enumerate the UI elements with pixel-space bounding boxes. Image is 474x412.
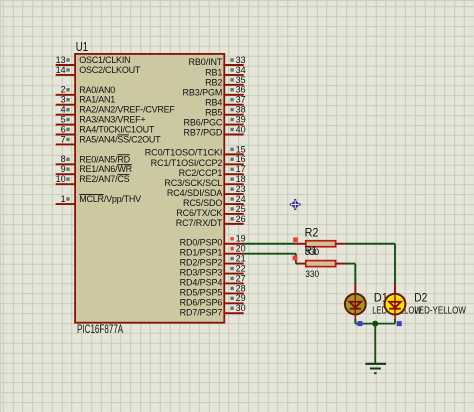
- svg-text:RA2/AN2/VREF-/CVREF: RA2/AN2/VREF-/CVREF: [79, 105, 175, 115]
- svg-text:RC0/T1OSO/T1CKI: RC0/T1OSO/T1CKI: [145, 148, 223, 158]
- svg-text:LED-YELLOW: LED-YELLOW: [414, 306, 466, 317]
- svg-text:MCLR/Vpp/THV: MCLR/Vpp/THV: [79, 194, 141, 204]
- svg-text:RA1/AN1: RA1/AN1: [79, 95, 115, 105]
- svg-text:D2: D2: [414, 290, 427, 304]
- svg-text:21: 21: [236, 254, 246, 264]
- svg-text:330: 330: [305, 269, 319, 280]
- svg-text:RC1/T1OSI/CCP2: RC1/T1OSI/CCP2: [151, 158, 223, 168]
- svg-text:RB4: RB4: [205, 97, 222, 107]
- svg-text:18: 18: [236, 174, 246, 184]
- svg-text:38: 38: [236, 105, 246, 115]
- svg-text:2: 2: [61, 85, 66, 95]
- svg-text:RA5/AN4/SS/C2OUT: RA5/AN4/SS/C2OUT: [79, 134, 161, 144]
- svg-text:PIC16F877A: PIC16F877A: [77, 324, 123, 336]
- svg-text:RA4/T0CKI/C1OUT: RA4/T0CKI/C1OUT: [79, 125, 155, 135]
- svg-text:RA0/AN0: RA0/AN0: [79, 85, 115, 95]
- svg-text:15: 15: [236, 144, 246, 154]
- svg-text:6: 6: [61, 124, 66, 134]
- svg-text:9: 9: [61, 164, 66, 174]
- svg-text:5: 5: [61, 114, 66, 124]
- svg-text:27: 27: [236, 273, 246, 283]
- svg-text:36: 36: [236, 85, 246, 95]
- svg-text:23: 23: [236, 184, 246, 194]
- svg-text:35: 35: [236, 75, 246, 85]
- svg-text:RB6/PGC: RB6/PGC: [183, 118, 222, 128]
- svg-text:RE1/AN6/WR: RE1/AN6/WR: [79, 164, 132, 174]
- svg-text:RC3/SCK/SCL: RC3/SCK/SCL: [164, 178, 222, 188]
- svg-text:RD7/PSP7: RD7/PSP7: [180, 307, 223, 317]
- svg-text:RB5: RB5: [205, 108, 222, 118]
- svg-text:RB0/INT: RB0/INT: [188, 57, 222, 67]
- svg-text:39: 39: [236, 114, 246, 124]
- svg-text:25: 25: [236, 204, 246, 214]
- svg-text:RC6/TX/CK: RC6/TX/CK: [176, 208, 222, 218]
- svg-text:RC4/SDI/SDA: RC4/SDI/SDA: [167, 188, 223, 198]
- svg-text:22: 22: [236, 263, 246, 273]
- svg-text:33: 33: [236, 55, 246, 65]
- svg-text:13: 13: [56, 55, 66, 65]
- svg-text:3: 3: [61, 95, 66, 105]
- svg-text:U1: U1: [76, 40, 88, 54]
- svg-text:RA3/AN3/VREF+: RA3/AN3/VREF+: [79, 115, 145, 125]
- svg-text:RC2/CCP1: RC2/CCP1: [179, 168, 223, 178]
- svg-text:7: 7: [61, 134, 66, 144]
- svg-text:RC7/RX/DT: RC7/RX/DT: [176, 218, 223, 228]
- svg-text:14: 14: [56, 65, 66, 75]
- svg-text:RD1/PSP1: RD1/PSP1: [180, 248, 223, 258]
- svg-text:34: 34: [236, 65, 246, 75]
- svg-text:RD4/PSP4: RD4/PSP4: [180, 277, 223, 287]
- svg-text:330: 330: [305, 247, 319, 258]
- svg-text:10: 10: [56, 174, 66, 184]
- svg-text:8: 8: [61, 154, 66, 164]
- svg-text:29: 29: [236, 293, 246, 303]
- svg-text:RE2/AN7/CS: RE2/AN7/CS: [79, 174, 129, 184]
- svg-text:26: 26: [236, 214, 246, 224]
- svg-text:16: 16: [236, 154, 246, 164]
- svg-text:RB7/PGD: RB7/PGD: [183, 128, 222, 138]
- svg-text:OSC2/CLKOUT: OSC2/CLKOUT: [79, 65, 141, 75]
- svg-text:RD5/PSP5: RD5/PSP5: [180, 287, 223, 297]
- svg-text:RD6/PSP6: RD6/PSP6: [180, 297, 223, 307]
- svg-text:RB1: RB1: [205, 67, 222, 77]
- svg-text:19: 19: [236, 234, 246, 244]
- svg-text:30: 30: [236, 303, 246, 313]
- svg-text:RB3/PGM: RB3/PGM: [182, 87, 222, 97]
- svg-text:R2: R2: [305, 226, 319, 240]
- svg-text:RB2: RB2: [205, 77, 222, 87]
- svg-text:RD0/PSP0: RD0/PSP0: [180, 238, 223, 248]
- svg-text:1: 1: [61, 194, 66, 204]
- svg-text:RD2/PSP2: RD2/PSP2: [180, 258, 223, 268]
- svg-text:24: 24: [236, 194, 246, 204]
- svg-text:4: 4: [61, 105, 66, 115]
- svg-text:40: 40: [236, 124, 246, 134]
- svg-text:RD3/PSP3: RD3/PSP3: [180, 268, 223, 278]
- svg-text:RE0/AN5/RD: RE0/AN5/RD: [79, 154, 130, 164]
- svg-text:20: 20: [236, 244, 246, 254]
- svg-text:OSC1/CLKIN: OSC1/CLKIN: [79, 55, 130, 65]
- svg-text:RC5/SDO: RC5/SDO: [183, 198, 222, 208]
- svg-text:17: 17: [236, 164, 246, 174]
- svg-text:28: 28: [236, 283, 246, 293]
- svg-text:37: 37: [236, 95, 246, 105]
